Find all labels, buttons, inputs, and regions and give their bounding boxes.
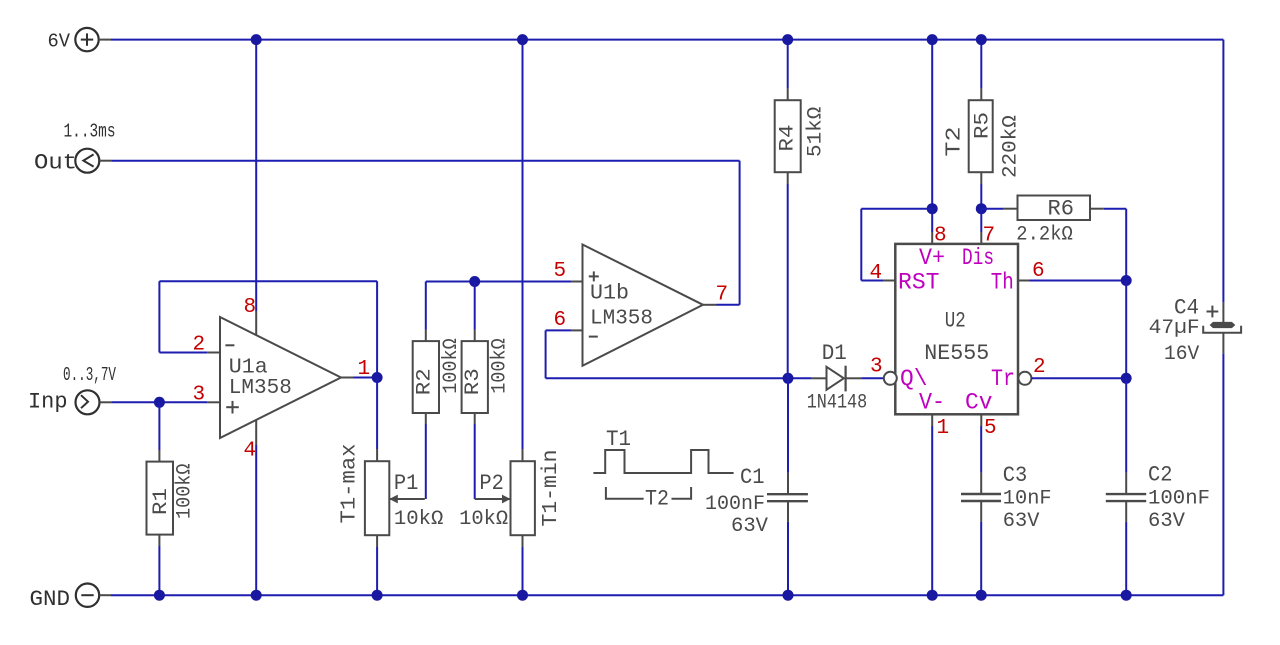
svg-text:Tr: Tr bbox=[991, 366, 1015, 392]
junction GND / U1a pin 4 bbox=[251, 590, 262, 601]
svg-text:51kΩ: 51kΩ bbox=[804, 107, 827, 157]
wire C1 to GND bbox=[787, 522, 789, 595]
wire Inp node to R1 bbox=[158, 402, 160, 450]
wire U1a output bbox=[354, 377, 378, 379]
svg-text:100kΩ: 100kΩ bbox=[489, 338, 512, 394]
svg-text:GND: GND bbox=[30, 587, 71, 612]
svg-text:16V: 16V bbox=[1164, 343, 1199, 366]
resistor R6 2.2k bbox=[1004, 196, 1104, 247]
wire R5 bottom to Dis node bbox=[980, 184, 982, 209]
wire R6 down to Th node bbox=[1125, 209, 1127, 281]
svg-text:P2: P2 bbox=[479, 471, 504, 496]
resistor R1 100k bbox=[147, 450, 197, 546]
svg-text:U2: U2 bbox=[945, 309, 966, 334]
timing waveform annotation T1/T2 bbox=[593, 427, 733, 512]
svg-text:T1-min: T1-min bbox=[540, 450, 563, 527]
wire R2 bottom to P1 wiper bbox=[425, 424, 427, 499]
wire GND bottom rail bbox=[111, 594, 1223, 596]
svg-text:100nF: 100nF bbox=[1148, 488, 1210, 511]
junction GND / P1 bbox=[372, 590, 383, 601]
junction Th node bbox=[1121, 275, 1132, 286]
svg-text:T1-max: T1-max bbox=[339, 444, 362, 524]
input port Inp bbox=[28, 364, 116, 415]
wire U1a feedback right vertical bbox=[376, 281, 378, 377]
svg-text:C2: C2 bbox=[1148, 463, 1173, 488]
polarized capacitor C4 47uF bbox=[1149, 296, 1241, 367]
wire C2 to GND bbox=[1125, 522, 1127, 595]
junction GND / C2 bbox=[1121, 590, 1132, 601]
svg-text:5: 5 bbox=[984, 417, 997, 440]
svg-text:63V: 63V bbox=[731, 515, 768, 538]
svg-text:6: 6 bbox=[554, 309, 567, 332]
wire C3 to GND bbox=[980, 522, 982, 595]
wire P2 to GND bbox=[522, 547, 524, 595]
wire 6V rail down to V+ node bbox=[931, 40, 933, 209]
junction GND / C3 bbox=[976, 590, 987, 601]
resistor R2 100k bbox=[413, 330, 464, 425]
svg-text:Cv: Cv bbox=[965, 390, 993, 416]
svg-text:LM358: LM358 bbox=[590, 308, 653, 331]
svg-text:3: 3 bbox=[870, 356, 883, 379]
svg-text:Dis: Dis bbox=[962, 245, 994, 271]
svg-text:2: 2 bbox=[1033, 356, 1046, 379]
capacitor C3 10nF bbox=[961, 463, 1052, 533]
wire right rail lower (C4 to GND) bbox=[1222, 353, 1224, 595]
svg-text:Th: Th bbox=[991, 270, 1014, 296]
wire Inp to U1a pin 3 bbox=[111, 401, 207, 403]
junction top rail / P2 bbox=[517, 34, 528, 45]
wire U1b pin 6 horizontal bbox=[546, 329, 572, 331]
supply port 6V bbox=[48, 28, 112, 53]
wire U2 pin 5 to C3 bbox=[980, 426, 982, 473]
capacitor C1 100nF bbox=[705, 465, 808, 538]
svg-text:10nF: 10nF bbox=[1003, 488, 1052, 511]
svg-text:T2: T2 bbox=[944, 127, 967, 157]
op-amp U1b (LM358) bbox=[571, 245, 716, 366]
wire RST top horizontal bbox=[861, 208, 932, 210]
svg-text:R6: R6 bbox=[1048, 197, 1075, 222]
junction GND / R1 bbox=[154, 590, 165, 601]
wire U2 pin 2 Tr horizontal bbox=[1031, 377, 1126, 379]
wire U1b pin 6 vertical bbox=[545, 330, 547, 378]
wire R6 right to Th vertical bbox=[1104, 208, 1126, 210]
junction U1a output node bbox=[372, 372, 383, 383]
junction GND / U2 pin 1 bbox=[927, 590, 938, 601]
svg-text:1: 1 bbox=[937, 417, 950, 440]
wire RST to U2 pin 4 bbox=[861, 280, 883, 282]
svg-text:C3: C3 bbox=[1003, 463, 1028, 488]
junction R4 / D1 / C1 node bbox=[783, 373, 794, 384]
svg-text:100kΩ: 100kΩ bbox=[440, 338, 463, 394]
op-amp U1a (LM358) bbox=[207, 311, 353, 445]
wire U2 pin 6 Th horizontal bbox=[1030, 280, 1127, 282]
svg-text:NE555: NE555 bbox=[924, 341, 989, 366]
junction R3 top node bbox=[469, 276, 480, 287]
svg-text:63V: 63V bbox=[1003, 510, 1040, 533]
wire R3 top bbox=[474, 282, 476, 330]
junction Tr node bbox=[1121, 373, 1132, 384]
resistor R3 100k bbox=[462, 330, 512, 425]
wire R1 to GND bbox=[158, 546, 160, 595]
ground port GND bbox=[30, 584, 112, 613]
wire Dis node to U2 pin 7 bbox=[980, 209, 982, 232]
potentiometer P1 10k T1-max bbox=[339, 444, 444, 548]
junction Dis node bbox=[976, 203, 987, 214]
svg-text:Inp: Inp bbox=[28, 390, 68, 415]
junction top rail / U1a pin 8 bbox=[251, 34, 262, 45]
svg-text:7: 7 bbox=[716, 284, 729, 307]
output port Out bbox=[34, 121, 116, 176]
svg-text:63V: 63V bbox=[1148, 510, 1185, 533]
junction top rail / R4 bbox=[782, 34, 793, 45]
svg-text:D1: D1 bbox=[822, 341, 847, 366]
wire R2 top to U1b pin 5 net bbox=[425, 282, 427, 330]
wire U1b output to Out vertical bbox=[717, 304, 740, 306]
junction GND / C1 bbox=[783, 590, 794, 601]
capacitor C2 100nF bbox=[1106, 463, 1210, 534]
wire 6V rail to R4 bbox=[787, 40, 789, 89]
svg-text:4: 4 bbox=[870, 262, 883, 285]
wire U1a pin 4 to GND bbox=[255, 445, 257, 595]
svg-text:U1b: U1b bbox=[590, 283, 629, 306]
resistor R4 51k bbox=[775, 88, 828, 184]
svg-text:1..3ms: 1..3ms bbox=[64, 121, 116, 143]
wire 6V rail to R5 bbox=[980, 40, 982, 89]
potentiometer P2 10k T1-min bbox=[459, 449, 563, 547]
resistor R5 220k (T2) bbox=[944, 88, 1023, 184]
wire 6V rail to P2 top bbox=[522, 40, 524, 449]
timer IC U2 NE555 bbox=[884, 232, 1032, 426]
junction top rail / V+ branch bbox=[927, 34, 938, 45]
junction GND / P2 bbox=[517, 590, 528, 601]
diode D1 1N4148 bbox=[807, 341, 868, 415]
wire Out net horizontal bbox=[111, 160, 739, 162]
wire R3 bottom to P2 wiper bbox=[474, 424, 476, 499]
svg-text:2.2kΩ: 2.2kΩ bbox=[1016, 224, 1073, 247]
svg-text:R3: R3 bbox=[462, 368, 485, 395]
wire U1a feedback vertical left bbox=[158, 281, 160, 352]
svg-text:10kΩ: 10kΩ bbox=[459, 508, 508, 531]
wire U1a output to P1 bbox=[376, 378, 378, 450]
svg-text:10kΩ: 10kΩ bbox=[394, 508, 444, 531]
svg-text:V+: V+ bbox=[919, 245, 945, 271]
svg-text:T2: T2 bbox=[645, 487, 669, 512]
wire U1b pin 5 horizontal bbox=[426, 281, 572, 283]
junction top rail / R5 bbox=[976, 34, 987, 45]
svg-text:T1: T1 bbox=[606, 427, 631, 452]
wire U2 pin 1 to GND bbox=[931, 426, 933, 595]
svg-text:R1: R1 bbox=[150, 488, 173, 515]
wire U1a feedback top horizontal bbox=[159, 280, 377, 282]
wire integrator net to D1 bbox=[546, 377, 812, 379]
svg-text:Out: Out bbox=[34, 151, 77, 176]
svg-text:8: 8 bbox=[244, 296, 257, 319]
svg-text:8: 8 bbox=[934, 225, 947, 248]
svg-text:R5: R5 bbox=[971, 112, 994, 139]
junction Inp/R1 node bbox=[154, 397, 165, 408]
svg-text:0..3,7V: 0..3,7V bbox=[63, 364, 116, 386]
svg-text:P1: P1 bbox=[394, 471, 419, 496]
svg-text:Q\: Q\ bbox=[900, 366, 928, 392]
junction V+ / RST node bbox=[927, 203, 938, 214]
svg-text:7: 7 bbox=[983, 225, 996, 248]
wire Out net vertical to U1b pin 7 bbox=[739, 161, 741, 305]
svg-text:100kΩ: 100kΩ bbox=[173, 464, 196, 520]
wire RST vertical bbox=[860, 209, 862, 281]
wire D1 cathode to U2 pin 3 bbox=[861, 377, 883, 379]
svg-text:C1: C1 bbox=[740, 465, 765, 490]
svg-text:6V: 6V bbox=[48, 30, 71, 52]
svg-text:R4: R4 bbox=[777, 125, 800, 152]
svg-text:220kΩ: 220kΩ bbox=[1000, 115, 1023, 178]
wire Tr node down to C2 bbox=[1125, 378, 1127, 472]
svg-text:LM358: LM358 bbox=[229, 377, 292, 400]
wire Dis node to R6 bbox=[981, 208, 1004, 210]
wire D1 node down to C1 bbox=[787, 378, 789, 472]
wire R4 bottom to D1 node bbox=[787, 184, 789, 378]
svg-text:4: 4 bbox=[244, 440, 257, 463]
wire V+ node to U2 pin 8 bbox=[931, 209, 933, 232]
svg-text:47µF: 47µF bbox=[1149, 317, 1200, 340]
wire +6V top rail bbox=[111, 39, 1223, 41]
wire right rail upper (6V to C4) bbox=[1222, 40, 1224, 303]
wire P1 to GND bbox=[376, 547, 378, 595]
svg-text:V-: V- bbox=[919, 390, 945, 416]
svg-text:1N4148: 1N4148 bbox=[807, 392, 868, 415]
svg-text:5: 5 bbox=[554, 260, 567, 283]
wire U1a pin 8 supply bbox=[255, 40, 257, 311]
svg-text:R2: R2 bbox=[413, 368, 436, 395]
svg-text:100nF: 100nF bbox=[705, 493, 765, 516]
wire Th to Tr vertical bbox=[1125, 281, 1127, 379]
wire U1a pin 2 horizontal bbox=[159, 352, 207, 354]
svg-text:RST: RST bbox=[898, 270, 940, 296]
